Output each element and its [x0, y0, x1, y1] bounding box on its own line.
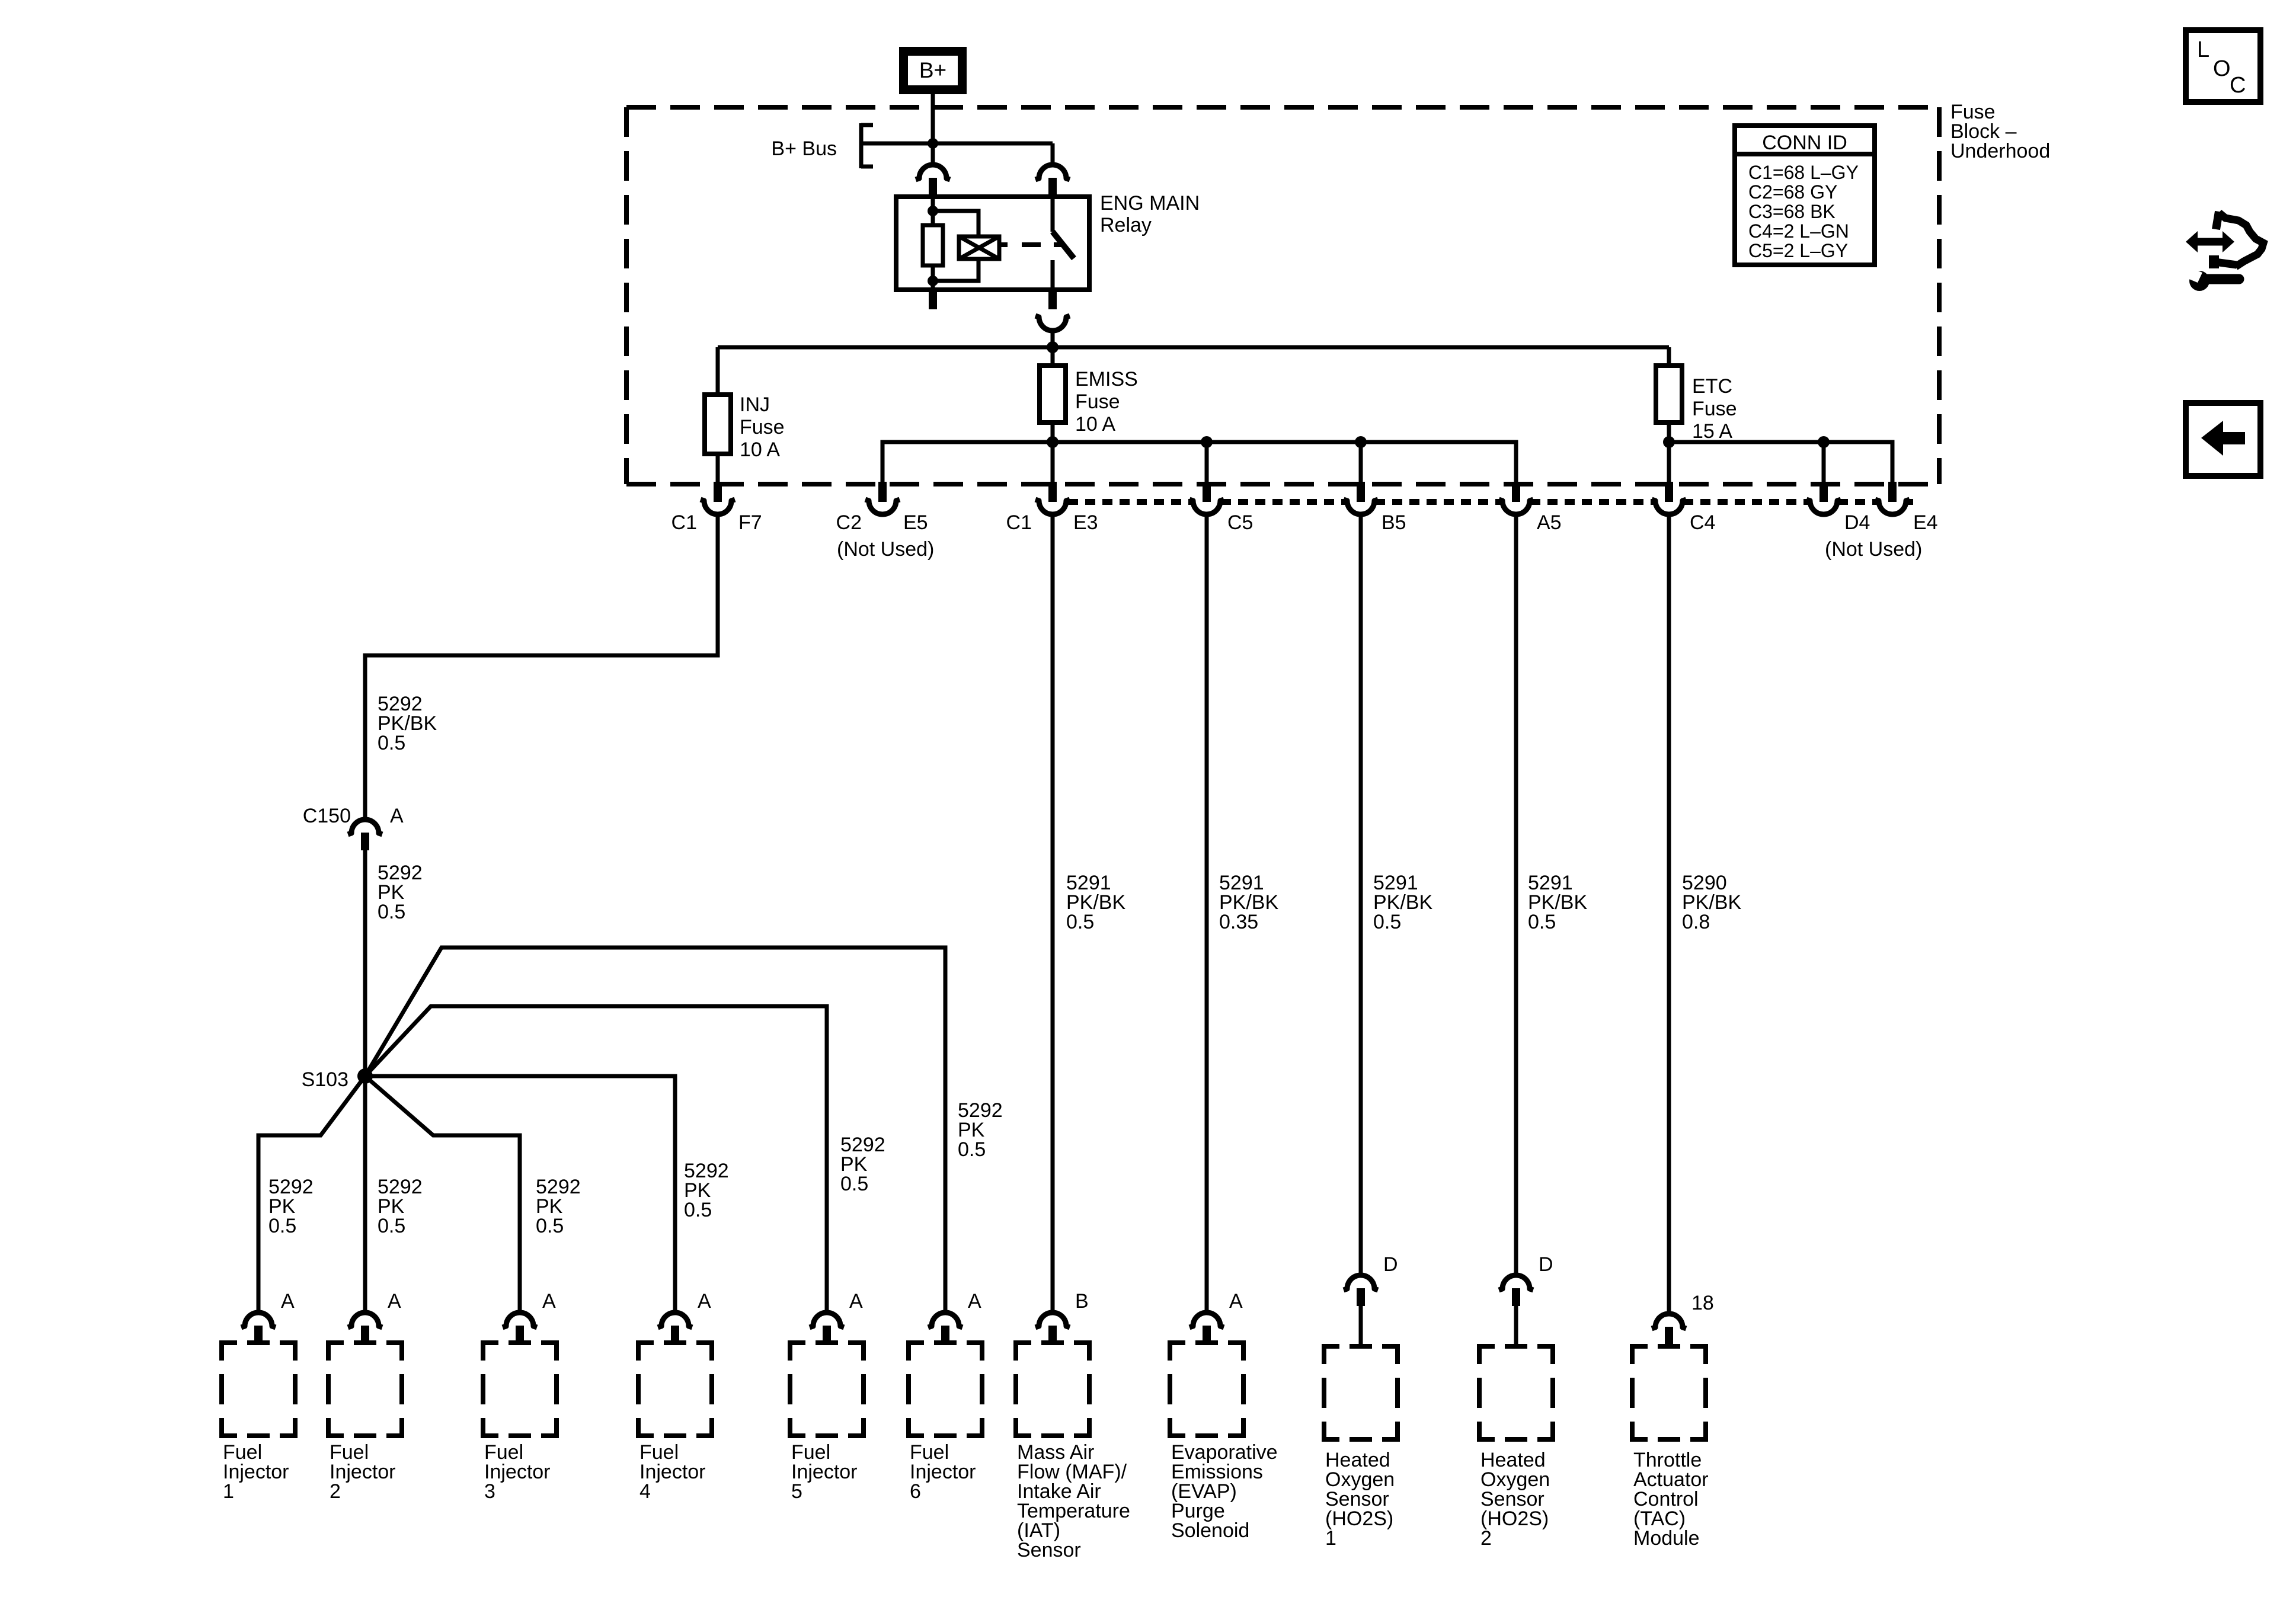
svg-text:0.5: 0.5	[378, 732, 405, 754]
dotted connector line	[1068, 499, 1192, 505]
connector D4 (not used)	[1819, 482, 1828, 502]
wire output bus	[718, 345, 1669, 350]
svg-text:0.5: 0.5	[1373, 911, 1401, 933]
mechanical linkage (dashed)	[999, 242, 1008, 247]
node B+ bus junction	[928, 138, 938, 149]
svg-text:A: A	[390, 805, 404, 827]
svg-text:2: 2	[1480, 1527, 1492, 1550]
svg-text:C150: C150	[303, 805, 351, 827]
connector E4 (not used)	[1888, 482, 1897, 502]
wire resistor bottom	[931, 265, 935, 290]
fuel injector 3	[503, 1313, 537, 1327]
svg-text:6: 6	[910, 1480, 921, 1503]
relay switch contact upper	[1051, 197, 1055, 232]
svg-text:18: 18	[1691, 1292, 1714, 1314]
svg-text:E3: E3	[1073, 511, 1098, 534]
node relay top junction	[928, 206, 938, 216]
svg-text:5: 5	[791, 1480, 802, 1503]
connector B5	[1357, 482, 1365, 502]
icon LOC box	[2186, 30, 2260, 102]
svg-text:C2=68 GY: C2=68 GY	[1748, 181, 1837, 203]
svg-text:0.35: 0.35	[1219, 911, 1258, 933]
node ETC branch junction	[1663, 436, 1675, 448]
splice S103	[357, 1068, 373, 1084]
HO2S 2	[1499, 1275, 1533, 1290]
svg-text:ENG MAIN: ENG MAIN	[1100, 192, 1200, 215]
wire S103 to injector 3	[365, 1076, 520, 1311]
svg-text:Module: Module	[1633, 1527, 1700, 1550]
B+ Bus bracket	[859, 123, 864, 168]
wire A5 to HO2S2	[1514, 516, 1518, 1273]
wire S103 to injector 2	[363, 1076, 367, 1311]
svg-text:Underhood: Underhood	[1950, 140, 2050, 162]
node C5 junction	[1201, 436, 1213, 448]
svg-text:C3=68 BK: C3=68 BK	[1748, 201, 1835, 222]
svg-text:A: A	[698, 1290, 711, 1313]
svg-text:ETC: ETC	[1692, 375, 1732, 398]
fuse EMISS 10A	[1040, 366, 1066, 422]
wire C4 to TAC	[1667, 516, 1671, 1312]
wire C1/F7 to C150	[365, 516, 718, 818]
node relay bottom junction	[928, 276, 938, 286]
svg-text:B+: B+	[919, 58, 946, 82]
wire drop C5	[1205, 442, 1209, 482]
svg-text:INJ: INJ	[740, 393, 770, 416]
relay coil feed wire	[931, 197, 935, 225]
svg-text:E4: E4	[1913, 511, 1938, 534]
connector A5	[1512, 482, 1520, 502]
svg-text:Fuse: Fuse	[1692, 398, 1737, 420]
svg-text:A: A	[1229, 1290, 1243, 1313]
svg-text:EMISS: EMISS	[1075, 368, 1138, 391]
fuse block boundary (dashed)	[626, 105, 1939, 110]
svg-text:B: B	[1075, 1290, 1089, 1313]
wire S103 to injector 4	[365, 1076, 675, 1311]
fuel injector 2	[348, 1313, 382, 1327]
wire coil branch top	[933, 211, 978, 236]
fuel injector 4	[658, 1313, 692, 1327]
svg-text:A: A	[849, 1290, 863, 1313]
wire coil branch bottom	[933, 259, 978, 281]
relay pin 3 stub (coil ground)	[929, 290, 937, 309]
relay pin 4 (switch output)	[1048, 290, 1057, 309]
svg-text:3: 3	[484, 1480, 495, 1503]
wire relay to EMISS fuse	[1051, 347, 1055, 366]
svg-text:Solenoid: Solenoid	[1171, 1519, 1249, 1542]
svg-text:C1=68 L–GY: C1=68 L–GY	[1748, 162, 1859, 183]
svg-text:0.5: 0.5	[378, 901, 405, 923]
wire ETC fuse down	[1667, 422, 1671, 482]
wire B5 to HO2S1	[1359, 516, 1363, 1273]
relay K1 ENG MAIN box	[896, 197, 1089, 290]
connector C1 E3	[1048, 482, 1057, 502]
svg-text:A5: A5	[1537, 511, 1562, 534]
B+ power symbol	[899, 47, 967, 94]
connector relay pin 2 (right)	[1035, 165, 1070, 180]
wire branch to D4/E4	[1669, 442, 1892, 482]
svg-text:0.5: 0.5	[268, 1215, 296, 1237]
svg-text:Relay: Relay	[1100, 214, 1152, 236]
svg-text:10 A: 10 A	[740, 438, 780, 461]
svg-text:C4=2 L–GN: C4=2 L–GN	[1748, 220, 1849, 242]
wire B+ to relay	[931, 94, 935, 164]
wire S103 to injector 1	[258, 1076, 365, 1311]
fuse ETC 15A	[1656, 366, 1682, 422]
node B5 junction	[1355, 436, 1367, 448]
svg-text:C: C	[2230, 73, 2246, 98]
svg-text:F7: F7	[738, 511, 762, 534]
connector C1 F7	[714, 482, 722, 502]
svg-text:0.5: 0.5	[958, 1138, 986, 1161]
svg-text:10 A: 10 A	[1075, 413, 1115, 436]
connector C4	[1665, 482, 1673, 502]
HO2S 1	[1344, 1275, 1378, 1290]
wire C150 to S103	[363, 850, 367, 1076]
svg-text:4: 4	[639, 1480, 651, 1503]
wire bus to INJ fuse	[716, 347, 720, 395]
connector C2 E5 (not used)	[878, 482, 887, 502]
wire S103 to injector 5	[365, 1006, 827, 1311]
svg-text:0.5: 0.5	[1528, 911, 1556, 933]
svg-text:0.5: 0.5	[840, 1173, 868, 1195]
wire distribution line y746	[882, 442, 1516, 482]
node D4 junction	[1818, 436, 1830, 448]
svg-text:15 A: 15 A	[1692, 420, 1732, 443]
svg-text:2: 2	[330, 1480, 341, 1503]
svg-text:0.5: 0.5	[536, 1215, 564, 1237]
icon powertrain (arrow, head, wrench)	[2216, 212, 2219, 229]
connector C5	[1203, 482, 1211, 502]
svg-text:B+ Bus: B+ Bus	[771, 137, 837, 160]
svg-text:1: 1	[223, 1480, 234, 1503]
svg-text:A: A	[968, 1290, 981, 1313]
wire EMISS fuse down	[1051, 422, 1055, 482]
svg-text:D: D	[1539, 1253, 1553, 1276]
svg-text:0.5: 0.5	[1066, 911, 1094, 933]
TAC module	[1652, 1314, 1686, 1329]
svg-text:Fuse: Fuse	[740, 416, 785, 438]
wire C5 to EVAP	[1205, 516, 1209, 1311]
svg-text:A: A	[542, 1290, 556, 1313]
svg-text:C5=2 L–GY: C5=2 L–GY	[1748, 240, 1848, 261]
svg-text:C5: C5	[1227, 511, 1253, 534]
svg-text:CONN ID: CONN ID	[1762, 132, 1847, 154]
svg-text:(Not Used): (Not Used)	[837, 538, 934, 561]
CONN ID table	[1735, 126, 1875, 265]
node bus/EMISS junction	[1047, 341, 1059, 353]
wire drop B5	[1359, 442, 1363, 482]
wire B+ bus	[861, 142, 1053, 146]
connector C150 pin A	[348, 820, 382, 834]
relay switch contact lower	[1051, 260, 1055, 290]
node EMISS distribution junction	[1047, 436, 1059, 448]
wire bus to ETC fuse	[1667, 347, 1671, 366]
resistor (relay internal)	[923, 225, 943, 265]
MAF/IAT sensor	[1035, 1313, 1070, 1327]
svg-text:D4: D4	[1844, 511, 1870, 534]
svg-text:E5: E5	[903, 511, 928, 534]
svg-text:C1: C1	[1006, 511, 1032, 534]
svg-text:C4: C4	[1690, 511, 1715, 534]
wire drop D4	[1822, 442, 1826, 482]
wire INJ fuse to C1/F7	[716, 454, 720, 482]
svg-text:Fuse: Fuse	[1075, 391, 1120, 413]
fuel injector 1	[241, 1313, 276, 1327]
svg-text:D: D	[1383, 1253, 1398, 1276]
svg-text:B5: B5	[1382, 511, 1406, 534]
EVAP purge solenoid	[1189, 1313, 1224, 1327]
fuel injector 6	[928, 1313, 962, 1327]
fuel injector 5	[810, 1313, 844, 1327]
svg-text:(Not Used): (Not Used)	[1825, 538, 1922, 561]
relay switch blade	[1053, 232, 1074, 258]
svg-text:0.5: 0.5	[378, 1215, 405, 1237]
svg-text:1: 1	[1325, 1527, 1336, 1550]
relay coil (X box)	[959, 236, 999, 259]
svg-text:C1: C1	[671, 511, 697, 534]
svg-text:0.5: 0.5	[684, 1199, 712, 1221]
wire E3 to MAF	[1051, 516, 1055, 1311]
connector relay pin 1 (left)	[916, 165, 950, 180]
svg-text:A: A	[388, 1290, 401, 1313]
svg-text:A: A	[281, 1290, 295, 1313]
wire S103 to injector 6	[365, 948, 945, 1311]
svg-text:L: L	[2197, 37, 2209, 62]
svg-text:Sensor: Sensor	[1017, 1539, 1081, 1561]
svg-text:C2: C2	[836, 511, 862, 534]
svg-text:0.8: 0.8	[1682, 911, 1710, 933]
fuse INJ 10A	[705, 395, 731, 454]
icon back-arrow box	[2186, 403, 2260, 476]
svg-text:S103: S103	[302, 1068, 348, 1091]
svg-text:O: O	[2213, 56, 2231, 81]
